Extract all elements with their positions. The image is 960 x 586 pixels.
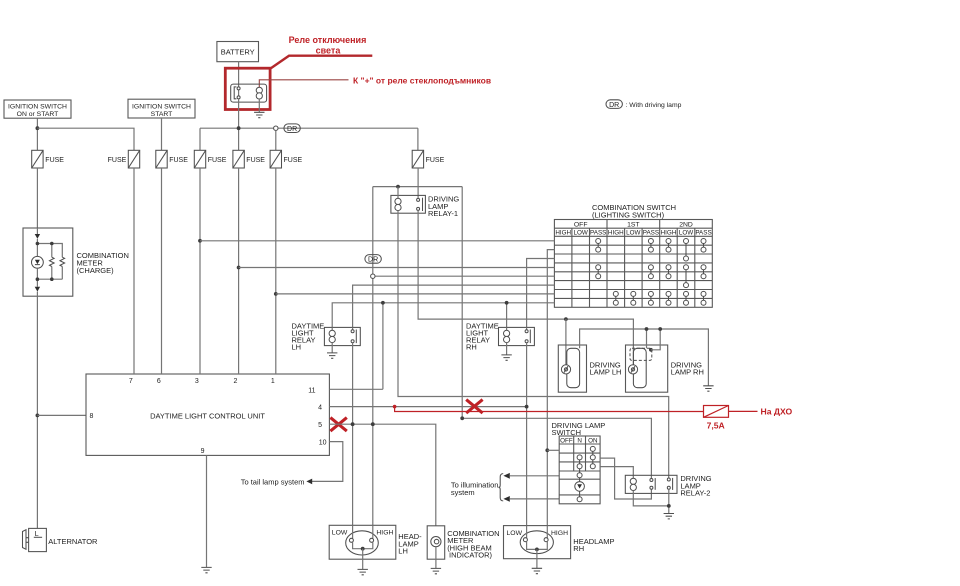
svg-text:LOW: LOW (626, 229, 640, 236)
svg-text:N: N (577, 438, 582, 445)
wire switch feed stub (547, 449, 559, 451)
wire illumination lower to switch (510, 498, 559, 500)
wire row8 daytime relay coils (332, 303, 554, 390)
wire switch ON row2 to relay-2 contact (600, 458, 651, 499)
node illumination rail tap (460, 416, 464, 420)
svg-text:DR: DR (368, 257, 378, 264)
svg-text:DAYTIME LIGHT CONTROL UNIT: DAYTIME LIGHT CONTROL UNIT (150, 411, 265, 420)
wire fuse F7 to relay-1 contact (417, 168, 419, 198)
svg-text:FUSE: FUSE (208, 157, 227, 164)
fuse F7 (412, 150, 444, 168)
svg-text:FUSE: FUSE (45, 157, 64, 164)
wire relay-1 contact to driving lamps feed (418, 210, 633, 365)
svg-text:Реле отключения: Реле отключения (289, 35, 367, 45)
ground headlamp RH (532, 568, 542, 573)
wire pin 5 to high beam indicator (329, 424, 435, 526)
ground headlamp LH (358, 569, 368, 574)
annotation red X on pin 4 wire (466, 400, 482, 414)
wire open circle to fuse F6 (275, 130, 277, 150)
fuse F8 7.5A red (704, 406, 729, 431)
svg-text:1: 1 (271, 378, 275, 385)
wire pin 10 to tail lamp system (312, 442, 343, 482)
svg-text:ON: ON (588, 438, 598, 445)
ground pin 9 (201, 567, 211, 572)
svg-text:PASS: PASS (695, 229, 711, 236)
wire row3 stub through daytime relay RH (527, 259, 555, 328)
switch contacts column PASS-OFF (596, 239, 601, 279)
relay K0 light-cutoff (inside red box) (231, 84, 267, 102)
svg-text:system: system (451, 488, 475, 497)
svg-text:1ST: 1ST (627, 222, 639, 229)
svg-text:10: 10 (319, 440, 327, 447)
wire row6 from daytime relay LH contact (353, 285, 555, 328)
svg-text:3: 3 (195, 378, 199, 385)
wire row1 fuse F4 to switch (200, 240, 554, 242)
arrow illumination lower (503, 496, 509, 502)
fuse F4 (194, 150, 226, 168)
wire daytime relay LH contact down to headlamp LH low (352, 346, 354, 526)
svg-text:BATTERY: BATTERY (221, 47, 255, 56)
node relay-2 ground junction (667, 504, 671, 508)
svg-text:света: света (316, 46, 342, 56)
svg-text:LOW: LOW (332, 529, 348, 536)
svg-text:RH: RH (573, 544, 584, 553)
annotation callout line (270, 56, 372, 69)
svg-text:2ND: 2ND (679, 222, 693, 229)
svg-text:FUSE: FUSE (108, 157, 127, 164)
wire relay-2 coil return to ground (633, 489, 669, 513)
net tag DR on bus (284, 124, 300, 133)
wire relay-1 coil down and over to relay-2 (398, 211, 669, 479)
node switch feed tap (545, 448, 549, 452)
annotation red box around cutoff relay (225, 68, 270, 109)
svg-text:5: 5 (318, 422, 322, 429)
svg-text:RELAY-2: RELAY-2 (680, 489, 710, 498)
svg-text:LH: LH (292, 342, 302, 351)
node pin8 branch (36, 414, 40, 418)
ground below cutoff relay (254, 112, 264, 117)
ground daytime relay LH (327, 353, 337, 358)
node ground return RH lamp (645, 327, 649, 331)
wire fuse F6 to pin 1 (275, 168, 277, 374)
wire pin 8 (37, 414, 86, 416)
wire ignition2 down to fuse F3 (161, 118, 163, 150)
switch contacts column LOW-1ST (631, 291, 636, 305)
driving lamp relay-1 K1 (391, 187, 460, 218)
svg-text:FUSE: FUSE (426, 157, 445, 164)
node ground return dashed tap (658, 327, 662, 331)
node driving lamp LH feed (564, 317, 568, 321)
headlamp LH E1 (329, 525, 422, 569)
svg-text:: With driving lamp: : With driving lamp (626, 102, 682, 109)
svg-text:7: 7 (129, 378, 133, 385)
svg-text:INDICATOR): INDICATOR) (449, 551, 493, 560)
ignition switch SW1 ON or START (4, 100, 71, 118)
node pin5 headlamp LH low tap (351, 422, 355, 426)
wire ignition1 down to fuse F1 (36, 118, 38, 150)
switch contacts column PASS-1ST (648, 239, 653, 306)
node row7 tap (274, 292, 278, 296)
svg-text:(LIGHTING SWITCH): (LIGHTING SWITCH) (592, 210, 665, 219)
wire row5 from DR connector (375, 275, 554, 277)
svg-text:6: 6 (157, 378, 161, 385)
svg-text:9: 9 (201, 448, 205, 455)
switch contacts column PASS-2ND (701, 239, 706, 306)
wire row7 fuse F6 to switch (276, 293, 555, 295)
wire battery to relay (238, 62, 240, 87)
svg-text:PASS: PASS (590, 229, 606, 236)
combination switch table S1 (554, 220, 712, 308)
svg-text:LH: LH (398, 547, 408, 556)
fuse F6 (270, 150, 302, 168)
driving lamp RH L2 (626, 345, 704, 392)
node pin5 headlamp LH high tap (371, 422, 375, 426)
annotation red DRL wire (395, 407, 758, 412)
connector open circle row5 (371, 274, 375, 278)
svg-text:To tail lamp system: To tail lamp system (241, 477, 305, 486)
svg-text:ON or START: ON or START (17, 111, 59, 118)
node row1 tap (198, 239, 202, 243)
driving lamp LH L1 (558, 345, 621, 392)
driving lamp relay-2 K4 (625, 474, 712, 497)
svg-text:OFF: OFF (560, 438, 573, 445)
wire fuse F5 to pin 2 (238, 168, 240, 374)
wire driving lamps ground return (580, 329, 709, 386)
wire fuse F2 to pin 7 (133, 168, 135, 374)
bracket illumination (498, 474, 503, 501)
node pin4 junction (525, 405, 529, 409)
svg-text:LOW: LOW (679, 229, 693, 236)
ignition switch SW2 START (128, 99, 195, 118)
svg-text:К "+" от реле стеклоподъмников: К "+" от реле стеклоподъмников (353, 76, 491, 86)
wire fuse F4 to pin 3 (199, 168, 201, 374)
switch contacts column HIGH-1ST (613, 291, 618, 305)
wire fuse F3 to pin 6 (161, 168, 163, 374)
svg-text:FUSE: FUSE (169, 157, 188, 164)
svg-text:LAMP LH: LAMP LH (590, 368, 622, 377)
annotation wire to window-lift relay (259, 80, 348, 87)
svg-text:(CHARGE): (CHARGE) (77, 266, 115, 275)
wire relay-1 top rail (373, 186, 462, 188)
wire switch ON row3 to relay-2 coil (600, 467, 633, 479)
svg-text:HIGH: HIGH (555, 229, 571, 236)
node relay-1 coil tap (396, 185, 400, 189)
svg-text:PASS: PASS (643, 229, 659, 236)
annotation red X on pin 5 (330, 418, 346, 432)
connector open circle on bus (274, 126, 278, 130)
svg-text:11: 11 (308, 387, 315, 394)
node battery junction (237, 126, 241, 130)
ground driving lamps (703, 386, 713, 391)
node row4 tap (237, 266, 241, 270)
ground daytime relay RH (501, 355, 511, 360)
node row8 pin11 tap (381, 301, 385, 305)
legend DR tag (606, 100, 682, 109)
svg-text:HIGH: HIGH (661, 229, 677, 236)
wire pin 4 to headlamp RH low (329, 406, 526, 408)
daytime light control unit U1 (86, 374, 329, 455)
wire daytime relay RH contact down to headlamp RH low (526, 346, 528, 526)
svg-text:LOW: LOW (507, 530, 523, 537)
wire fuse F1 to combination meter (36, 168, 38, 228)
svg-text:4: 4 (318, 404, 322, 411)
combination meter high-beam indicator U3 (427, 526, 499, 569)
svg-text:ALTERNATOR: ALTERNATOR (48, 537, 98, 546)
svg-text:HIGH: HIGH (608, 229, 624, 236)
svg-text:8: 8 (90, 413, 94, 420)
svg-text:LOW: LOW (574, 229, 588, 236)
svg-text:HIGH: HIGH (551, 530, 568, 537)
net tag DR on relay-1 left rail (365, 255, 381, 264)
node red tap on pin 4 (393, 405, 397, 409)
svg-text:7,5А: 7,5А (707, 420, 725, 430)
svg-text:DR: DR (609, 102, 619, 109)
wire feed down to driving lamp LH (565, 319, 567, 365)
svg-text:RELAY-1: RELAY-1 (428, 209, 458, 218)
svg-text:DR: DR (287, 126, 297, 133)
wire combination meter to alternator (36, 296, 38, 528)
switch contacts column LOW-2ND (684, 239, 689, 306)
node ignition1 branch (36, 126, 40, 130)
fuse F2 (108, 150, 140, 168)
wire relay-1 right rail down (461, 187, 463, 419)
battery B1 (217, 42, 259, 62)
fuse F1 (32, 150, 65, 168)
wire battery bus (200, 128, 418, 150)
svg-text:На ДХО: На ДХО (761, 406, 793, 416)
svg-text:START: START (151, 111, 173, 118)
combination meter (charge) U2 (23, 228, 129, 296)
wire illumination upper to switch (510, 475, 559, 477)
wire illumination line from relay-1 right rail to relay-2 (462, 418, 651, 478)
daytime light relay LH K2 (292, 321, 361, 353)
svg-text:IGNITION SWITCH: IGNITION SWITCH (132, 103, 191, 110)
alternator G1 (23, 528, 99, 551)
svg-text:FUSE: FUSE (284, 157, 303, 164)
svg-text:LAMP RH: LAMP RH (671, 368, 704, 377)
wire branch to fuse F2 (37, 128, 134, 150)
wire relay contact down to bus (238, 99, 240, 128)
wire row2 stub to headlamp RH high (547, 250, 554, 526)
svg-text:2: 2 (233, 378, 237, 385)
switch contacts column HIGH-2ND (666, 239, 671, 306)
driving lamp switch S2 (559, 436, 600, 504)
headlamp RH E2 (504, 526, 615, 569)
arrow illumination upper (503, 473, 509, 479)
svg-text:IGNITION SWITCH: IGNITION SWITCH (8, 103, 67, 110)
svg-text:FUSE: FUSE (246, 157, 265, 164)
wire row4 fuse F5 to switch (239, 267, 555, 269)
wire relay-1 left rail down through DR to headlamp LH high (372, 187, 374, 526)
fuse F3 (156, 150, 188, 168)
node dashed connector tap (649, 348, 653, 352)
node row8 relay RH coil tap (505, 301, 509, 305)
wire pin 11 (329, 388, 383, 390)
wire pin 9 to ground (206, 455, 208, 567)
ground relay-2 (664, 514, 674, 519)
wire relay coil to ground (258, 99, 260, 112)
fuse F5 (233, 150, 265, 168)
svg-text:OFF: OFF (574, 222, 588, 229)
daytime light relay RH K3 (466, 321, 534, 355)
svg-text:RH: RH (466, 342, 477, 351)
ground high-beam indicator (431, 568, 441, 573)
svg-text:HIGH: HIGH (376, 529, 393, 536)
